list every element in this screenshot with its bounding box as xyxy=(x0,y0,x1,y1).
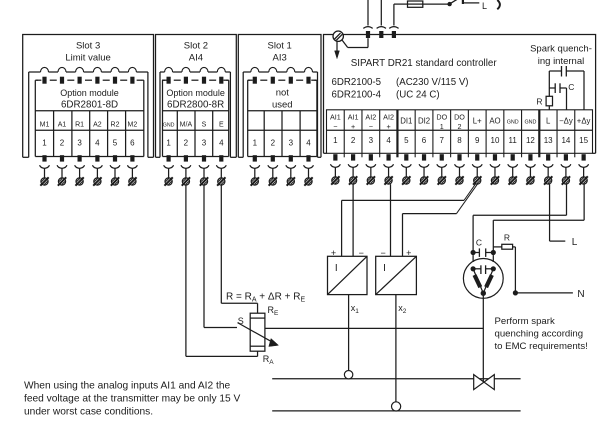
svg-text:AO: AO xyxy=(489,116,500,125)
svg-text:R1: R1 xyxy=(75,122,84,129)
svg-text:2: 2 xyxy=(271,138,276,147)
svg-text:4: 4 xyxy=(386,136,391,145)
svg-text:5: 5 xyxy=(113,138,118,147)
svg-text:AI1: AI1 xyxy=(348,112,359,121)
svg-text:feed voltage at the transmitte: feed voltage at the transmitter may be o… xyxy=(24,394,241,405)
svg-text:1: 1 xyxy=(166,138,171,147)
svg-text:15: 15 xyxy=(579,136,588,145)
svg-text:R = RA + ΔR + RE: R = RA + ΔR + RE xyxy=(226,292,305,304)
svg-text:3: 3 xyxy=(289,138,294,147)
svg-text:used: used xyxy=(272,100,293,111)
svg-text:4: 4 xyxy=(306,138,311,147)
svg-text:L: L xyxy=(546,116,551,125)
svg-text:5: 5 xyxy=(404,136,409,145)
svg-text:+: + xyxy=(351,122,355,131)
svg-text:+: + xyxy=(331,248,336,258)
svg-text:3: 3 xyxy=(77,138,82,147)
svg-text:RA: RA xyxy=(263,354,275,366)
svg-text:6DR2100-5: 6DR2100-5 xyxy=(332,77,382,88)
svg-text:GND: GND xyxy=(163,123,175,129)
svg-text:DO: DO xyxy=(436,112,447,121)
svg-text:R2: R2 xyxy=(111,122,120,129)
svg-text:13: 13 xyxy=(544,136,553,145)
svg-text:10: 10 xyxy=(491,136,500,145)
svg-text:2: 2 xyxy=(60,138,65,147)
svg-text:−Δy: −Δy xyxy=(559,116,573,125)
svg-text:R: R xyxy=(504,233,510,243)
svg-text:(AC230 V/115 V): (AC230 V/115 V) xyxy=(396,77,469,88)
svg-text:L+: L+ xyxy=(473,116,482,125)
svg-text:−: − xyxy=(380,248,385,258)
svg-text:12: 12 xyxy=(526,136,535,145)
svg-text:x2: x2 xyxy=(398,303,407,315)
svg-text:L: L xyxy=(572,237,578,248)
svg-text:under worst case conditions.: under worst case conditions. xyxy=(24,407,153,418)
svg-text:Option module: Option module xyxy=(166,88,225,98)
svg-text:Slot 1: Slot 1 xyxy=(268,40,292,51)
svg-text:A2: A2 xyxy=(93,122,102,129)
svg-text:+: + xyxy=(406,248,411,258)
svg-text:14: 14 xyxy=(561,136,570,145)
svg-text:2: 2 xyxy=(351,136,356,145)
svg-text:AI2: AI2 xyxy=(365,112,376,121)
svg-text:Limit value: Limit value xyxy=(65,52,110,63)
svg-text:7: 7 xyxy=(440,136,445,145)
svg-text:−: − xyxy=(359,248,364,258)
svg-text:Slot 3: Slot 3 xyxy=(76,40,100,51)
svg-text:When using the analog inputs A: When using the analog inputs AI1 and AI2… xyxy=(24,381,231,392)
svg-text:1: 1 xyxy=(333,136,338,145)
svg-text:AI4: AI4 xyxy=(189,52,203,63)
svg-text:1: 1 xyxy=(253,138,258,147)
svg-text:Option module: Option module xyxy=(60,88,119,98)
svg-text:quenching according: quenching according xyxy=(495,329,584,340)
svg-text:Slot 2: Slot 2 xyxy=(184,40,208,51)
svg-text:(UC 24 C): (UC 24 C) xyxy=(396,90,440,101)
svg-text:C: C xyxy=(476,237,482,247)
svg-text:N: N xyxy=(577,289,584,300)
svg-text:to EMC requirements!: to EMC requirements! xyxy=(495,341,588,352)
svg-text:Perform spark: Perform spark xyxy=(495,316,555,327)
svg-text:6: 6 xyxy=(130,138,135,147)
svg-text:9: 9 xyxy=(475,136,480,145)
svg-text:11: 11 xyxy=(509,136,518,145)
svg-text:DI1: DI1 xyxy=(400,116,412,125)
svg-text:+: + xyxy=(386,122,390,131)
svg-text:I: I xyxy=(383,263,386,274)
svg-text:L: L xyxy=(482,1,487,11)
svg-text:6DR2801-8D: 6DR2801-8D xyxy=(61,100,118,111)
svg-text:4: 4 xyxy=(95,138,100,147)
svg-text:M1: M1 xyxy=(40,122,50,129)
svg-text:4: 4 xyxy=(219,138,224,147)
svg-text:2: 2 xyxy=(184,138,189,147)
svg-text:RE: RE xyxy=(268,305,280,317)
svg-text:3: 3 xyxy=(369,136,374,145)
svg-text:C: C xyxy=(568,82,574,92)
svg-text:S: S xyxy=(202,122,207,129)
svg-text:M2: M2 xyxy=(128,122,138,129)
svg-text:R: R xyxy=(536,97,542,107)
svg-text:AI1: AI1 xyxy=(330,112,341,121)
svg-text:not: not xyxy=(276,88,290,99)
svg-text:6DR2800-8R: 6DR2800-8R xyxy=(167,100,224,111)
svg-text:A1: A1 xyxy=(58,122,67,129)
svg-text:1: 1 xyxy=(42,138,47,147)
svg-text:6DR2100-4: 6DR2100-4 xyxy=(332,90,382,101)
svg-text:3: 3 xyxy=(202,138,207,147)
svg-text:GND: GND xyxy=(507,119,519,125)
svg-text:DI2: DI2 xyxy=(418,116,430,125)
svg-text:x1: x1 xyxy=(351,303,360,315)
svg-text:ing internal: ing internal xyxy=(538,56,584,67)
svg-text:S: S xyxy=(238,316,244,326)
svg-text:AI2: AI2 xyxy=(383,112,394,121)
svg-text:−: − xyxy=(333,122,337,131)
svg-text:+Δy: +Δy xyxy=(577,116,591,125)
svg-text:M/A: M/A xyxy=(180,122,193,129)
svg-text:GND: GND xyxy=(524,119,536,125)
svg-text:AI3: AI3 xyxy=(273,52,287,63)
svg-text:6: 6 xyxy=(422,136,427,145)
svg-text:2: 2 xyxy=(458,122,462,131)
svg-text:SIPART DR21 standard controlle: SIPART DR21 standard controller xyxy=(351,58,498,69)
svg-text:Spark quench-: Spark quench- xyxy=(530,44,592,55)
svg-text:1: 1 xyxy=(440,122,444,131)
svg-text:DO: DO xyxy=(454,112,465,121)
svg-text:−: − xyxy=(369,122,373,131)
svg-text:I: I xyxy=(335,263,338,274)
svg-text:E: E xyxy=(219,122,224,129)
svg-text:8: 8 xyxy=(457,136,462,145)
